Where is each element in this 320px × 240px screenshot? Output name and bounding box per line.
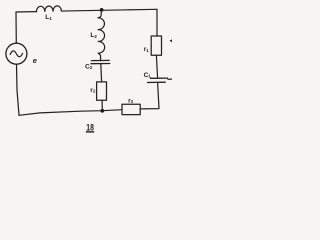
svg-text:e: e (33, 56, 37, 65)
svg-text:r2: r2 (90, 87, 96, 94)
svg-text:C1: C1 (144, 72, 152, 79)
svg-text:C2: C2 (85, 64, 93, 71)
svg-text:L2: L2 (90, 32, 97, 39)
svg-text:L1: L1 (45, 14, 52, 21)
svg-text:r1: r1 (144, 46, 150, 53)
svg-text:r3: r3 (128, 98, 134, 105)
